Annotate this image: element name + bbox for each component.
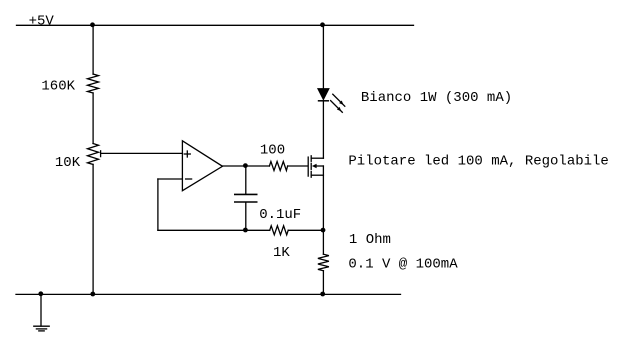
- wire: capacitor bottom lead: [245, 203, 247, 231]
- svg-text:1 Ohm: 1 Ohm: [349, 232, 391, 248]
- wire: right vertical from +5V to LED anode: [322, 25, 324, 89]
- node: junction top rail / left branch: [90, 22, 95, 27]
- potentiometer wiper tick: [100, 151, 102, 157]
- svg-text:0.1uF: 0.1uF: [259, 207, 301, 223]
- resistor R 160K body: [88, 74, 99, 93]
- wire: 1K to right vertical: [288, 229, 323, 231]
- transistor Q1 drain stub: [311, 157, 323, 159]
- op-amp U1 triangle: [182, 141, 222, 191]
- wire: 1 Ohm to bottom rail: [322, 271, 324, 295]
- LED light arrow 1: [333, 94, 345, 106]
- resistor R 1 Ohm body: [318, 254, 329, 271]
- wire: 100 resistor to MOSFET gate: [288, 165, 308, 167]
- capacitor C 0.1uF plates: [234, 193, 258, 195]
- svg-text:+5V: +5V: [29, 13, 55, 29]
- wire: op-amp output: [223, 165, 270, 167]
- svg-text:0.1 V @ 100mA: 0.1 V @ 100mA: [348, 257, 458, 273]
- svg-text:1K: 1K: [273, 245, 290, 261]
- transistor Q1 MOSFET channel segment drain: [310, 156, 312, 162]
- node: junction bottom rail / left branch: [90, 292, 95, 297]
- node: junction bottom rail / right branch: [320, 292, 325, 297]
- svg-text:10K: 10K: [55, 155, 81, 171]
- node: capacitor bottom / feedback junction: [243, 228, 248, 233]
- svg-text:Pilotare led 100 mA, Regolabil: Pilotare led 100 mA, Regolabile: [348, 154, 608, 170]
- wire: LED cathode to MOSFET drain: [322, 101, 324, 158]
- wire: feedback left vertical: [157, 179, 159, 230]
- LED D1 cathode bar: [318, 100, 329, 102]
- wire: feedback bottom run to 1K: [158, 229, 270, 231]
- node: junction top rail / LED branch: [320, 22, 325, 27]
- svg-text:Bianco 1W (300 mA): Bianco 1W (300 mA): [361, 90, 512, 106]
- node: output / capacitor top junction: [243, 163, 248, 168]
- op-amp minus input mark: [186, 178, 192, 180]
- transistor Q1 body stub with arrow: [316, 165, 324, 167]
- ground symbol bars: [34, 325, 49, 327]
- node: 1K / source line junction: [321, 228, 326, 233]
- wire: ground bottom rail: [16, 293, 401, 295]
- transistor Q1 MOSFET channel segment source: [310, 171, 312, 177]
- resistor R 100 body: [269, 162, 287, 171]
- wire: inverting input to feedback: [158, 178, 183, 180]
- wire: MOSFET source vertical down to 1 Ohm: [322, 166, 324, 254]
- resistor R 1K body: [270, 226, 289, 235]
- LED D1 triangle: [318, 89, 329, 100]
- wire: left vertical from +5V to 160K: [92, 25, 94, 74]
- LED light arrow 2: [331, 101, 343, 113]
- wire: left vertical between 160K and 10K pot: [92, 93, 94, 144]
- potentiometer R 10K body: [88, 144, 99, 165]
- op-amp plus input mark: [184, 153, 190, 155]
- wire: ground tap vertical: [40, 294, 42, 326]
- svg-text:160K: 160K: [41, 78, 75, 94]
- transistor Q1 source stub: [311, 174, 323, 176]
- node: junction bottom rail / ground tap: [38, 291, 43, 296]
- wire: left vertical from 10K to bottom rail: [92, 164, 94, 294]
- svg-text:100: 100: [260, 143, 285, 159]
- transistor Q1 MOSFET channel segment body: [310, 163, 312, 169]
- transistor Q1 MOSFET gate bar: [307, 157, 309, 176]
- wire: wiper to op-amp non-inverting input: [101, 152, 183, 154]
- wire: capacitor top lead: [245, 166, 247, 194]
- wire: +5V top rail: [17, 24, 414, 26]
